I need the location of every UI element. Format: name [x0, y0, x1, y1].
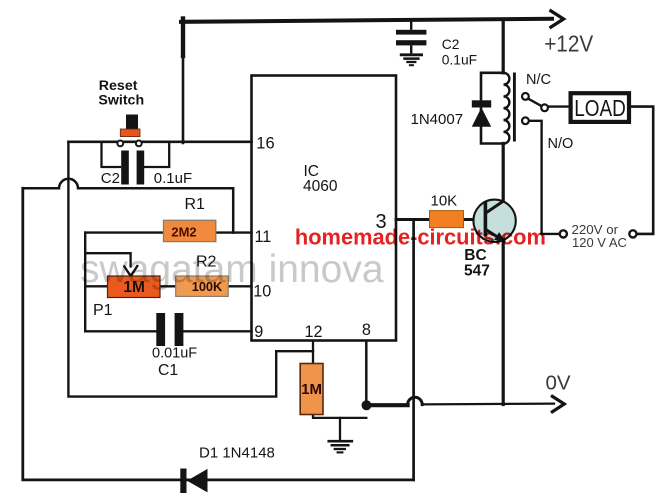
svg-text:N/C: N/C	[526, 72, 551, 88]
svg-text:+12V: +12V	[544, 31, 594, 57]
svg-text:16: 16	[256, 134, 274, 152]
svg-text:9: 9	[254, 323, 263, 341]
svg-text:P1: P1	[93, 302, 113, 319]
svg-text:8: 8	[362, 321, 371, 339]
svg-text:547: 547	[464, 263, 490, 280]
svg-text:Reset: Reset	[99, 78, 138, 94]
svg-text:2M2: 2M2	[171, 224, 196, 239]
svg-text:12: 12	[305, 323, 323, 341]
svg-text:swagatam innova: swagatam innova	[80, 248, 384, 291]
svg-text:N/O: N/O	[548, 136, 574, 152]
svg-text:R1: R1	[185, 196, 206, 213]
svg-text:10K: 10K	[431, 193, 458, 210]
svg-text:C2: C2	[101, 170, 120, 187]
svg-text:120 V AC: 120 V AC	[572, 235, 627, 250]
svg-text:1M: 1M	[301, 381, 322, 398]
svg-text:0V: 0V	[546, 372, 571, 395]
svg-text:homemade-circuits.com: homemade-circuits.com	[295, 224, 546, 249]
svg-text:0.1uF: 0.1uF	[154, 170, 192, 187]
svg-text:1N4007: 1N4007	[411, 111, 464, 128]
svg-text:LOAD: LOAD	[574, 95, 626, 121]
svg-text:11: 11	[255, 228, 272, 246]
svg-text:C1: C1	[158, 362, 178, 379]
svg-text:C2: C2	[442, 37, 460, 52]
svg-text:0.01uF: 0.01uF	[152, 346, 197, 362]
svg-text:Switch: Switch	[98, 93, 144, 109]
svg-text:0.1uF: 0.1uF	[442, 53, 477, 68]
svg-text:D1 1N4148: D1 1N4148	[199, 445, 275, 462]
svg-text:4060: 4060	[303, 178, 338, 195]
